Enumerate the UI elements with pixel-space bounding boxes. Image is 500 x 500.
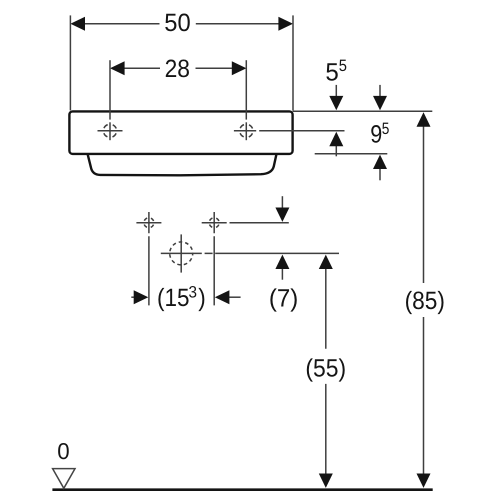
dimension 28 : left extension line (109, 60, 111, 119)
dimension 5.5 : upper arrow (down) (335, 85, 337, 98)
fixing hole reference line extended right (230, 222, 289, 224)
right fixing hole extension line down to 15.3 dim (213, 212, 215, 305)
right fixing hole dashed circle (209, 218, 219, 228)
dimension 50 : left extension line (69, 15, 71, 110)
svg-text:0: 0 (57, 438, 69, 464)
svg-text:3: 3 (189, 284, 198, 302)
floor line (52, 488, 432, 491)
left tap hole dashed circle (103, 124, 116, 137)
dimension 50 : dim line (84, 23, 279, 25)
dimension 9.5 : lower arrow (up) (379, 168, 381, 181)
svg-text:9: 9 (370, 121, 382, 149)
dimension 85 : vertical line with arrows (423, 126, 425, 475)
drain hole horizontal centre line extended right (161, 252, 339, 254)
dimension 7 : upper arrow (down) (281, 196, 283, 209)
dimension 7 : lower arrow (up) (281, 268, 283, 280)
dimension 5.5 : lower arrow (up) (335, 145, 337, 157)
rim top reference line extended right (293, 110, 433, 112)
svg-text:(85): (85) (405, 287, 445, 315)
washbasin lower body (88, 154, 277, 175)
left fixing hole dashed circle (144, 218, 154, 228)
left fixing hole cross (136, 222, 161, 224)
dimension 50 : right arrowhead (278, 17, 293, 31)
left tap hole cross (98, 122, 123, 140)
washbasin rim (front view) (69, 111, 292, 153)
svg-text:): ) (198, 284, 206, 312)
dimension 28 : right arrowhead (232, 61, 247, 75)
dimension 15.3 : right stub and arrowhead (229, 296, 241, 298)
svg-text:28: 28 (165, 55, 190, 83)
svg-text:(15: (15 (157, 284, 190, 312)
svg-text:(55): (55) (305, 354, 346, 382)
right tap hole centre line extended right (259, 130, 344, 132)
right fixing hole cross (202, 222, 227, 224)
right tap hole dashed circle (240, 124, 253, 137)
rim bottom (9.5) reference line (315, 153, 388, 155)
dimension 28 : dim line (124, 67, 233, 69)
dimension 9.5 : upper arrow (down) (379, 85, 381, 98)
dimension 28 : right extension line (245, 60, 247, 119)
dimension 50 : right extension line (292, 15, 294, 110)
svg-text:50: 50 (164, 9, 190, 37)
datum zero triangle (53, 469, 75, 489)
svg-text:(7): (7) (269, 284, 298, 312)
left fixing hole extension line down to 15.3 dim (148, 212, 150, 305)
dimension 28 : left arrowhead (110, 61, 125, 75)
drain hole dashed circle (170, 242, 193, 265)
drain hole vertical centre line (180, 234, 182, 272)
right tap hole cross (234, 122, 256, 140)
dimension 55 : vertical line with arrows (325, 268, 327, 475)
dimension 15.3 : left stub and arrowhead (131, 296, 134, 298)
svg-text:5: 5 (382, 120, 390, 138)
svg-text:5: 5 (325, 58, 338, 86)
dimension 50 : left arrowhead (70, 17, 85, 31)
svg-text:5: 5 (339, 57, 347, 75)
